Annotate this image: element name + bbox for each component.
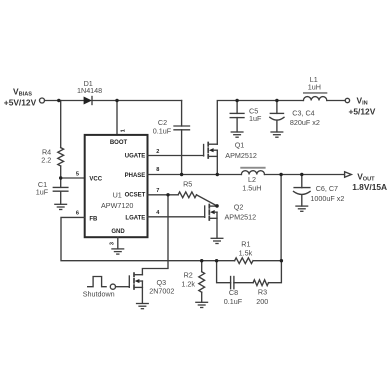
svg-text:8: 8: [156, 167, 159, 173]
svg-text:R1: R1: [241, 239, 250, 248]
svg-text:APW7120: APW7120: [101, 201, 133, 210]
svg-text:1uF: 1uF: [36, 188, 49, 197]
svg-text:FB: FB: [89, 217, 98, 223]
svg-text:1.5uH: 1.5uH: [242, 183, 261, 192]
svg-text:6: 6: [76, 211, 79, 217]
svg-text:2N7002: 2N7002: [149, 286, 174, 295]
svg-text:U1: U1: [113, 191, 122, 200]
svg-text:C6, C7: C6, C7: [316, 184, 338, 193]
svg-text:0.1uF: 0.1uF: [153, 127, 172, 136]
svg-text:3: 3: [109, 242, 115, 245]
svg-text:1uF: 1uF: [249, 114, 262, 123]
svg-text:7: 7: [156, 188, 159, 194]
svg-text:Shutdown: Shutdown: [83, 290, 115, 299]
svg-text:1.8V/15A: 1.8V/15A: [352, 182, 387, 192]
svg-text:+5V/12V: +5V/12V: [4, 97, 37, 107]
svg-text:APM2512: APM2512: [225, 151, 257, 160]
svg-text:0.1uF: 0.1uF: [224, 297, 243, 306]
svg-text:1: 1: [121, 129, 127, 132]
svg-text:GND: GND: [111, 229, 125, 235]
svg-text:1uH: 1uH: [308, 83, 321, 92]
svg-text:VCC: VCC: [89, 176, 102, 182]
svg-text:R5: R5: [183, 179, 192, 188]
svg-text:LGATE: LGATE: [125, 216, 145, 222]
svg-text:2.2: 2.2: [41, 156, 51, 165]
svg-text:OCSET: OCSET: [125, 192, 146, 198]
svg-text:APM2512: APM2512: [225, 213, 257, 222]
svg-text:PHASE: PHASE: [125, 173, 146, 179]
svg-text:C8: C8: [229, 288, 238, 297]
svg-text:1N4148: 1N4148: [77, 86, 102, 95]
svg-text:Q1: Q1: [235, 140, 245, 149]
svg-text:820uF x2: 820uF x2: [290, 118, 320, 127]
svg-text:2: 2: [156, 149, 159, 155]
svg-text:+5/12V: +5/12V: [349, 106, 376, 116]
svg-text:UGATE: UGATE: [125, 154, 146, 160]
svg-text:R3: R3: [258, 288, 267, 297]
svg-text:200: 200: [256, 297, 268, 306]
svg-text:BOOT: BOOT: [110, 140, 128, 146]
svg-text:1000uF x2: 1000uF x2: [310, 194, 344, 203]
svg-text:1.5k: 1.5k: [239, 249, 253, 258]
svg-text:C3, C4: C3, C4: [292, 109, 314, 118]
svg-text:5: 5: [76, 172, 79, 178]
svg-text:1.2k: 1.2k: [181, 279, 195, 288]
svg-text:Q2: Q2: [234, 202, 244, 211]
svg-text:R2: R2: [184, 270, 193, 279]
